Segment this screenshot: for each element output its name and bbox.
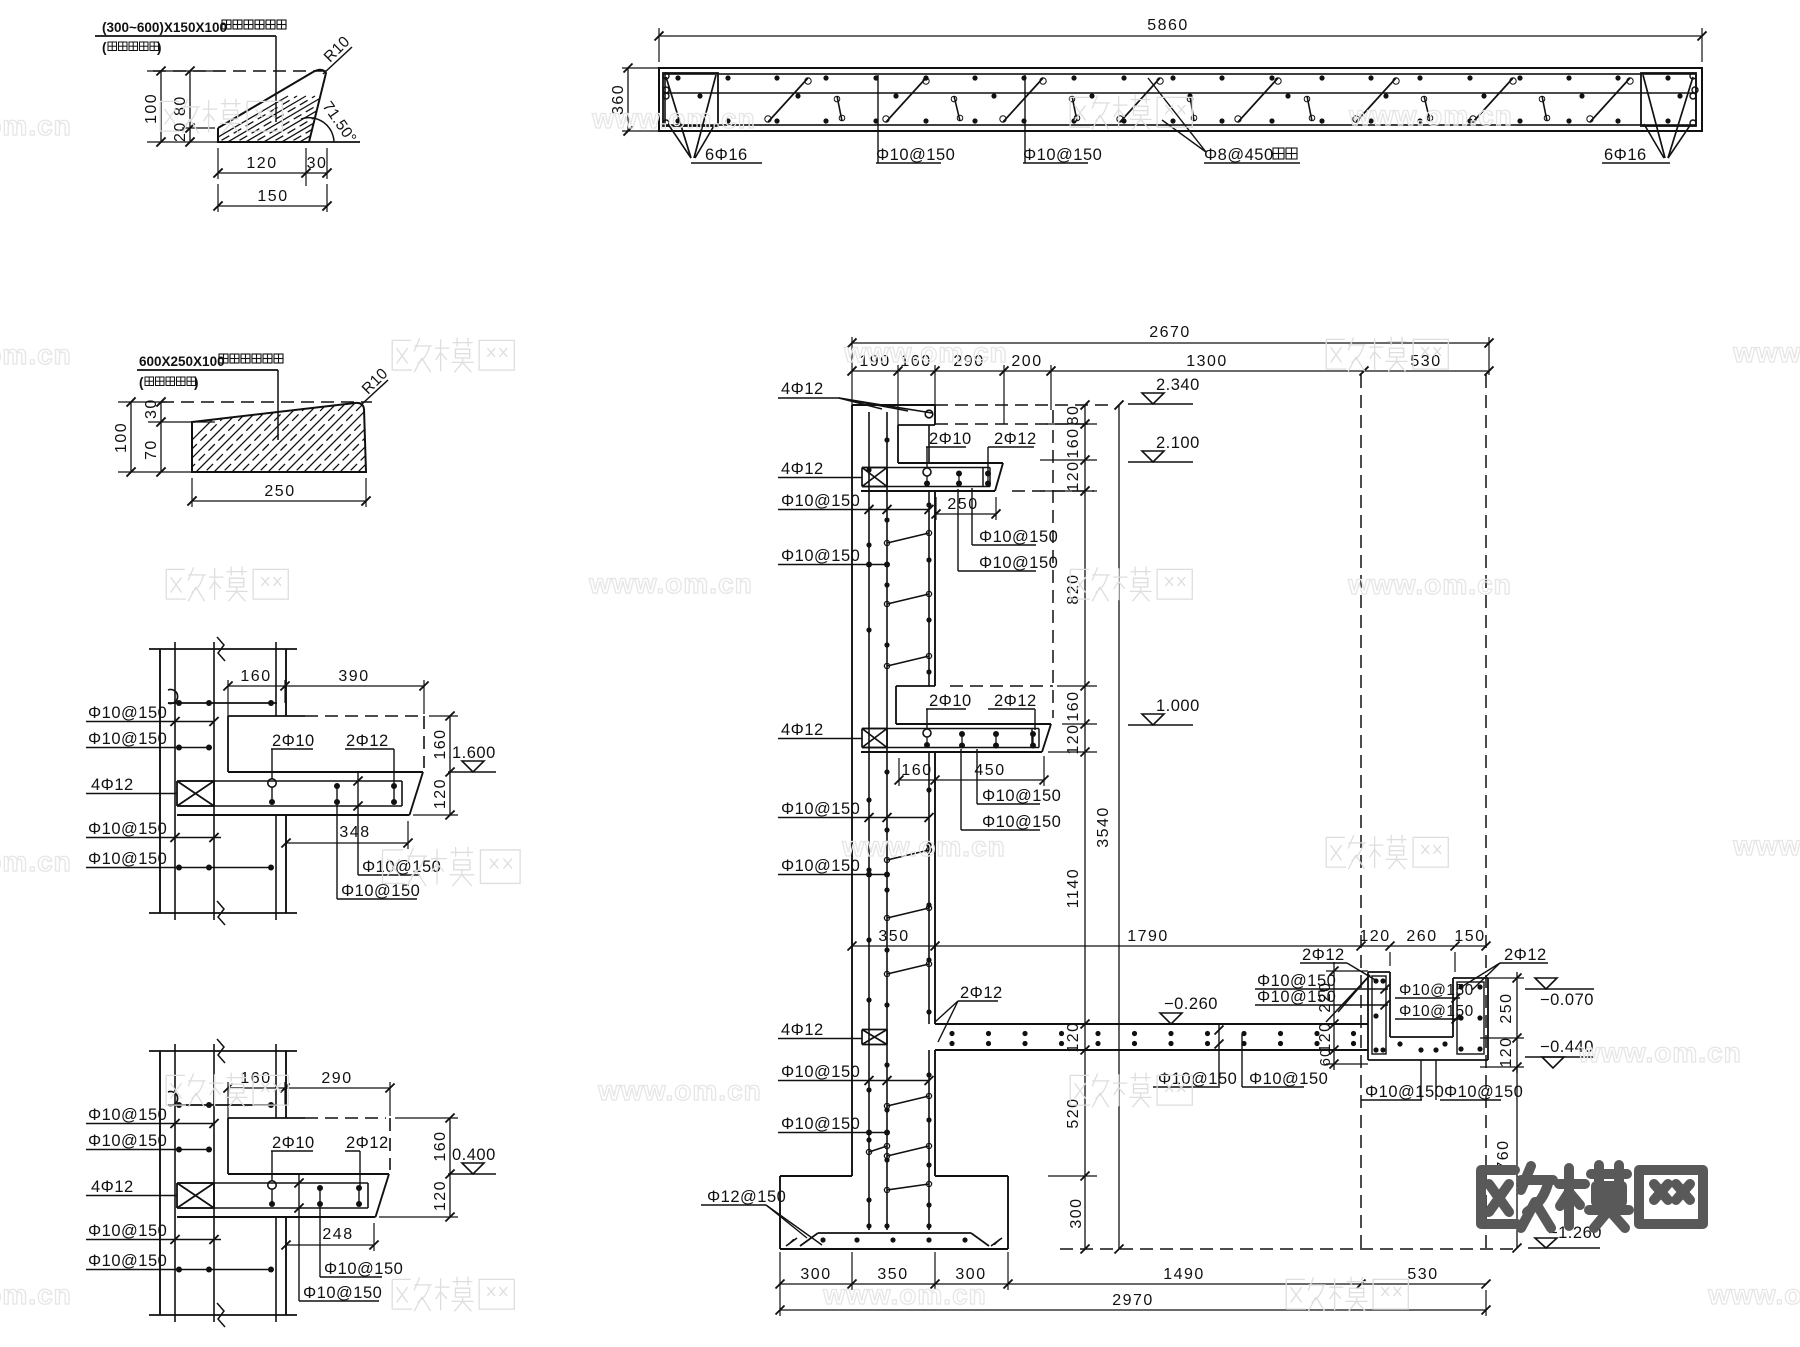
detail B leader xyxy=(277,370,279,440)
F ledge1 label 2phi12 xyxy=(985,430,1037,487)
ledge beam bottom line xyxy=(177,1216,376,1218)
svg-text:2.100: 2.100 xyxy=(1156,434,1200,452)
F footing corner anchor symbols xyxy=(786,1238,1002,1246)
svg-text:3540: 3540 xyxy=(1095,806,1112,848)
F footing bottom rebar with hooks xyxy=(800,1233,989,1246)
F wall width dim 350 at slab level xyxy=(852,928,935,946)
F level 2.100 xyxy=(1128,434,1200,462)
F left label phi10@150 (L1) xyxy=(778,492,934,514)
svg-text:2Φ10: 2Φ10 xyxy=(272,732,315,750)
label 2phi10 xyxy=(271,732,315,779)
ledge recess outline xyxy=(228,1118,390,1174)
wall rebar verticals xyxy=(175,642,214,920)
dim 160 right vertical xyxy=(429,712,458,777)
F ledge1 recess outline xyxy=(898,425,935,463)
wall bottom cap line with break xyxy=(149,1303,297,1327)
F wall ties below slab xyxy=(884,1093,931,1158)
F ledge2 label phi10@150 (1) xyxy=(977,749,1061,805)
svg-text:Φ10@150: Φ10@150 xyxy=(1365,1083,1444,1101)
svg-text:5860: 5860 xyxy=(1147,17,1189,34)
svg-text:www.om.cn: www.om.cn xyxy=(1348,100,1513,131)
F below-trough labels phi10@150 xyxy=(1361,1060,1444,1101)
svg-text:Φ10@150: Φ10@150 xyxy=(88,704,167,722)
svg-text:Φ10@150: Φ10@150 xyxy=(1158,1070,1237,1088)
svg-text:30: 30 xyxy=(143,398,160,419)
svg-text:Φ10@150: Φ10@150 xyxy=(781,1115,860,1133)
svg-text:530: 530 xyxy=(1410,353,1441,370)
svg-text:Φ10@150: Φ10@150 xyxy=(362,858,441,876)
svg-text:www.om.cn: www.om.cn xyxy=(1347,569,1512,600)
F trough label 2phi12 right xyxy=(1463,946,1548,990)
level marker 0.400 xyxy=(448,1146,496,1174)
F trough inner labels phi10@150 xyxy=(1395,982,1474,1003)
F ledge2 recess outline xyxy=(896,686,1053,724)
detail B title underline xyxy=(137,369,278,371)
svg-text:2Φ12: 2Φ12 xyxy=(1504,946,1547,964)
svg-text:4Φ12: 4Φ12 xyxy=(91,776,134,794)
detail A title underline xyxy=(95,35,276,37)
svg-text:www.om.cn: www.om.cn xyxy=(843,337,1008,368)
label phi10@150 lower-right first xyxy=(320,1204,403,1278)
wall outer left face xyxy=(159,1051,161,1315)
F level 2.340 xyxy=(1128,376,1200,404)
beam left end cage 6phi16 xyxy=(663,73,718,158)
F top dim 2670 xyxy=(848,324,1494,405)
label phi10@150 lower-right first xyxy=(358,858,441,876)
svg-text:80: 80 xyxy=(1065,405,1082,426)
detail A stone cross-section outline with hatch xyxy=(218,70,326,142)
F trough bent bars at left wall top xyxy=(1326,975,1370,1022)
svg-text:www.om.cn: www.om.cn xyxy=(1732,337,1800,368)
4phi12 X-brace xyxy=(177,1182,214,1184)
beam top rebar dots xyxy=(675,75,1670,80)
dim 248 below beam xyxy=(281,1223,378,1251)
svg-text:150: 150 xyxy=(1454,928,1485,945)
svg-text:www.om.cn: www.om.cn xyxy=(0,1279,72,1310)
svg-text:www.om.cn: www.om.cn xyxy=(0,110,72,141)
svg-text:4Φ12: 4Φ12 xyxy=(781,1021,824,1039)
svg-text:2Φ12: 2Φ12 xyxy=(994,692,1037,710)
F label phi12@150 footing xyxy=(701,1188,822,1245)
F ledge1 label phi10@150 (2) xyxy=(958,489,1058,572)
beam dim 5860 xyxy=(655,17,1707,62)
wall top cap line with break xyxy=(149,637,297,661)
F level -1.260 xyxy=(1528,1224,1602,1248)
svg-text:160: 160 xyxy=(432,1130,449,1161)
detail A dim 120/30 xyxy=(213,148,331,186)
left label phi10@150 (4) xyxy=(86,850,274,871)
F left label phi10@150 (L3) xyxy=(778,800,934,822)
svg-text:(: ( xyxy=(139,375,144,390)
F ledge1 label phi10@150 (1) xyxy=(972,488,1058,546)
detail B title 600X250X100 stone xyxy=(139,354,283,369)
F ledge1 dim 250 xyxy=(932,496,1001,520)
dim 290 top xyxy=(285,1070,395,1116)
svg-text:450: 450 xyxy=(974,762,1005,779)
svg-text:160: 160 xyxy=(240,668,271,685)
svg-text:4Φ12: 4Φ12 xyxy=(781,380,824,398)
svg-text:Φ10@150: Φ10@150 xyxy=(781,1063,860,1081)
F wall top line xyxy=(852,404,935,406)
label 2phi12 xyxy=(345,732,394,785)
svg-text:Φ10@150: Φ10@150 xyxy=(781,492,860,510)
stirrup leader tick vertical xyxy=(294,1174,303,1301)
F slab rebar dots rows xyxy=(949,1031,1356,1046)
F wall rebar vertical a xyxy=(868,412,870,1230)
F ledge1 right slant xyxy=(995,463,1003,491)
F slab label 2phi12 xyxy=(935,984,1003,1042)
label phi10@150 lower-right second xyxy=(337,802,420,900)
svg-text:Φ10@150: Φ10@150 xyxy=(1249,1070,1328,1088)
wall right inner bar (interrupted by ledge) xyxy=(275,642,277,920)
F dim col right 250/120 xyxy=(1480,972,1524,1073)
detail B subtitle xyxy=(139,375,199,390)
dim 120 right vertical xyxy=(413,772,458,820)
svg-text:80: 80 xyxy=(172,95,189,116)
F left label phi10@150 (L4) xyxy=(778,857,890,878)
F bottom dim row 300/350/300/1490/530 xyxy=(776,1252,1491,1290)
beam inner rebar cage xyxy=(665,74,1696,125)
beam label 6phi16 left xyxy=(691,146,762,164)
F level -0.440 xyxy=(1525,1038,1594,1068)
detail A R10 leader xyxy=(323,47,352,74)
detail B dim 30/70 xyxy=(143,397,215,476)
svg-text:2Φ12: 2Φ12 xyxy=(346,732,389,750)
F ledge2 4phi12 X-brace xyxy=(862,728,887,730)
ledge beam top line xyxy=(228,1173,389,1175)
detail B stone outline xyxy=(192,403,366,472)
svg-text:160: 160 xyxy=(1065,427,1082,458)
F trough right wall stirrup + dots xyxy=(1457,982,1484,1054)
svg-text:Φ10@150: Φ10@150 xyxy=(88,820,167,838)
detail A angle arc 71.50 deg xyxy=(301,118,334,142)
detail B dashed top line xyxy=(161,401,372,403)
svg-text:1.600: 1.600 xyxy=(452,744,496,762)
svg-text:2970: 2970 xyxy=(1112,1292,1154,1309)
beam bottom rebar dots xyxy=(675,118,1670,123)
F trough left wall stirrup + dots xyxy=(1372,976,1386,1054)
svg-text:www.om.cn: www.om.cn xyxy=(588,568,753,599)
F ledge1 mid rebar dots xyxy=(956,471,962,487)
beam stirrup lines xyxy=(179,781,402,806)
F dim 1790 slab xyxy=(848,928,1366,951)
svg-text:4Φ12: 4Φ12 xyxy=(781,460,824,478)
svg-text:2Φ10: 2Φ10 xyxy=(929,430,972,448)
ledge beam top line xyxy=(228,771,423,773)
svg-text:2.340: 2.340 xyxy=(1156,376,1200,394)
left label phi10@150 (4) xyxy=(86,1252,274,1273)
svg-text:350: 350 xyxy=(878,928,909,945)
svg-text:Φ10@150: Φ10@150 xyxy=(88,1222,167,1240)
svg-text:1490: 1490 xyxy=(1163,1266,1205,1283)
F slab top line xyxy=(935,1023,1368,1025)
svg-text:250: 250 xyxy=(1498,992,1515,1023)
svg-text:Φ8@450: Φ8@450 xyxy=(1204,146,1274,164)
svg-text:530: 530 xyxy=(1407,1266,1438,1283)
svg-text:1300: 1300 xyxy=(1186,353,1228,370)
stirrup leader tick vertical xyxy=(353,772,362,875)
left label 4phi12 xyxy=(86,776,177,794)
F ledge2 rebar dots xyxy=(959,731,1036,749)
svg-text:2Φ12: 2Φ12 xyxy=(346,1134,389,1152)
detail B dim 100 xyxy=(113,397,192,476)
svg-text:Φ10@150: Φ10@150 xyxy=(979,554,1058,572)
F below-slab label phi10@150 (1) xyxy=(1153,1070,1237,1088)
svg-text:www.om.cn: www.om.cn xyxy=(822,1279,987,1310)
wall right face (interrupted by ledge) xyxy=(285,1051,287,1315)
F dashed grid vertical at 1486 xyxy=(1485,375,1487,1249)
F wall rebar vertical c (interrupted) xyxy=(928,425,930,1230)
F below-slab label phi10@150 (2) xyxy=(1242,1034,1328,1088)
F dashed hidden line 80 below top xyxy=(935,423,1094,425)
4phi12 X-brace xyxy=(177,780,214,782)
F dim 3540 overall xyxy=(1095,400,1124,1253)
beam middle rebar dots xyxy=(697,93,1682,98)
beam stirrup lines xyxy=(179,1183,368,1208)
svg-text:220: 220 xyxy=(1317,981,1334,1012)
svg-text:1790: 1790 xyxy=(1127,928,1169,945)
left label phi10@150 (2) xyxy=(86,1132,212,1153)
ledge recess outline xyxy=(228,716,424,772)
svg-text:Φ10@150: Φ10@150 xyxy=(88,850,167,868)
detail A baseline xyxy=(218,141,360,143)
svg-text:120: 120 xyxy=(1065,1021,1082,1052)
left label phi10@150 (3) xyxy=(86,820,221,842)
dim 390 top xyxy=(285,668,429,714)
beam rebar dots xyxy=(268,1181,362,1207)
dim 120 right vertical xyxy=(379,1174,458,1222)
svg-text:Φ10@150: Φ10@150 xyxy=(324,1260,403,1278)
svg-text:Φ10@150: Φ10@150 xyxy=(781,800,860,818)
F ledge1 4phi12 X-brace xyxy=(862,467,887,469)
wall right face (interrupted by ledge) xyxy=(285,649,287,913)
svg-text:www.om.cn: www.om.cn xyxy=(0,846,72,877)
F ledge1 label 2phi10 xyxy=(923,430,972,487)
F footing bar dots xyxy=(866,1197,931,1228)
svg-text:www.om.cn: www.om.cn xyxy=(597,1075,762,1106)
svg-text:250: 250 xyxy=(264,483,295,500)
F dim 120/260/150 trough xyxy=(1359,928,1490,972)
svg-text:4Φ12: 4Φ12 xyxy=(781,721,824,739)
left label phi10@150 (2) xyxy=(86,730,212,751)
F wall bar dots below slab xyxy=(866,1062,931,1167)
F dim col inner 80/160/120/820/160/120/1140/120/520/300 xyxy=(1040,400,1097,1253)
F trough-left labels phi10@150 stack xyxy=(1255,972,1390,994)
svg-text:Φ10@150: Φ10@150 xyxy=(88,730,167,748)
beam label phi10@150 second xyxy=(1023,75,1102,164)
svg-text:Φ10@150: Φ10@150 xyxy=(876,146,955,164)
svg-text:290: 290 xyxy=(321,1070,352,1087)
F ledge2 beam top xyxy=(896,723,1051,725)
svg-text:Φ10@150: Φ10@150 xyxy=(1023,146,1102,164)
beam outer outline xyxy=(659,68,1702,131)
svg-text:120: 120 xyxy=(1359,928,1390,945)
svg-text:248: 248 xyxy=(322,1226,353,1243)
F ledge1 beam bottom xyxy=(861,490,995,492)
F dashed hidden vertical at 1053 xyxy=(1052,410,1054,718)
svg-text:120: 120 xyxy=(432,778,449,809)
F ledge2 label 4phi12 xyxy=(778,721,862,739)
svg-text:200: 200 xyxy=(1011,353,1042,370)
F left label phi10@150 (L2) xyxy=(778,547,890,568)
F wall ties between ledge1 and ledge2 xyxy=(884,530,931,668)
hooked horizontal bar with dots xyxy=(168,1092,277,1109)
beam tie diagonals phi8@450 xyxy=(765,78,1633,122)
svg-text:6Φ16: 6Φ16 xyxy=(1604,146,1647,164)
svg-text:www.om.cn: www.om.cn xyxy=(1707,1279,1800,1310)
F ledge2 label 2phi10 xyxy=(923,692,972,748)
label 2phi12 xyxy=(345,1134,389,1187)
F trough inner floor xyxy=(1390,1036,1453,1038)
F dim 760 xyxy=(1495,1067,1522,1253)
svg-text:120: 120 xyxy=(1065,723,1082,754)
F footing ties xyxy=(866,1143,931,1192)
beam middle bar line xyxy=(663,87,1698,93)
F bottom dim 2970 xyxy=(776,1290,1491,1316)
svg-text:Φ10@150: Φ10@150 xyxy=(982,787,1061,805)
ledge beam right slant edge xyxy=(376,1174,390,1217)
F level 1.000 xyxy=(1128,697,1200,725)
F slab label 4phi12 xyxy=(778,1021,862,1039)
F level -0.070 xyxy=(1525,978,1594,1009)
F ledge2 label phi10@150 (2) xyxy=(961,749,1061,831)
svg-text:820: 820 xyxy=(1065,573,1082,604)
svg-text:2Φ10: 2Φ10 xyxy=(929,692,972,710)
dim 160 top xyxy=(223,668,289,716)
detail A subtitle (cut to size) xyxy=(102,40,162,55)
svg-text:348: 348 xyxy=(339,824,370,841)
wall outer left face xyxy=(159,649,161,913)
svg-text:60: 60 xyxy=(1317,1048,1334,1067)
svg-text:Φ10@150: Φ10@150 xyxy=(979,528,1058,546)
svg-text:): ) xyxy=(194,375,199,390)
svg-text:160: 160 xyxy=(1065,690,1082,721)
beam right end cage 6phi16 xyxy=(1641,73,1696,158)
svg-text:160: 160 xyxy=(240,1070,271,1087)
F dashed grid vertical at 1361 xyxy=(1360,375,1362,1249)
svg-text:300: 300 xyxy=(1068,1197,1085,1228)
svg-text:Φ10@150: Φ10@150 xyxy=(88,1132,167,1150)
F ledge1 label 4phi12 xyxy=(778,460,862,478)
dim 160 right vertical xyxy=(395,1114,458,1179)
beam label phi10@150 first xyxy=(876,75,955,164)
svg-text:2Φ12: 2Φ12 xyxy=(1302,946,1345,964)
detail A dim 100 vertical xyxy=(143,67,225,147)
F trough label 2phi12 left xyxy=(1300,946,1377,981)
F trough right wall xyxy=(1453,978,1488,1060)
F dim col 220/120/60 xyxy=(1317,962,1368,1070)
F ledge1 beam top xyxy=(898,462,1003,464)
svg-text:Φ10@150: Φ10@150 xyxy=(1399,1003,1474,1020)
F slab bottom line xyxy=(935,1049,1368,1051)
level marker 1.600 xyxy=(448,744,496,772)
svg-text:−0.070: −0.070 xyxy=(1540,991,1594,1009)
svg-text:150: 150 xyxy=(257,188,288,205)
OM.CN logo bottom right (dark) xyxy=(1481,1165,1703,1228)
hooked horizontal bar with dots xyxy=(168,690,277,706)
F footing outline xyxy=(780,1176,1008,1249)
wall top cap line with break xyxy=(149,1039,297,1063)
F label 4phi12 top bent bars xyxy=(778,380,933,418)
beam label phi8@450 ties xyxy=(1148,78,1300,164)
svg-text:4Φ12: 4Φ12 xyxy=(91,1178,134,1196)
svg-text:100: 100 xyxy=(113,422,130,453)
F wall top dashed extension xyxy=(935,404,1110,406)
wall rebar verticals xyxy=(175,1044,214,1322)
svg-text:(300~600)X150X100: (300~600)X150X100 xyxy=(102,20,227,35)
ledge beam right slant edge xyxy=(410,772,424,815)
F trough bottom xyxy=(1368,1059,1488,1061)
svg-text:120: 120 xyxy=(432,1180,449,1211)
svg-text:1.000: 1.000 xyxy=(1156,697,1200,715)
svg-text:): ) xyxy=(157,40,162,55)
svg-text:−0.260: −0.260 xyxy=(1164,995,1218,1013)
F ledge1 soffit dashed extension xyxy=(1012,490,1094,492)
svg-text:Φ10@150: Φ10@150 xyxy=(1444,1083,1523,1101)
F ledge1 stirrup lines xyxy=(862,468,990,487)
wall right inner bar (interrupted by ledge) xyxy=(275,1044,277,1322)
F wall rebar vertical b xyxy=(886,412,888,1230)
detail A dashed top line xyxy=(153,70,330,72)
svg-text:160: 160 xyxy=(432,728,449,759)
F top dim row 190/160/290/200/1300/530 xyxy=(848,353,1494,425)
svg-text:www.om.cn: www.om.cn xyxy=(1732,830,1800,861)
F trough left wall xyxy=(1368,972,1390,1060)
F slab 4phi12 X-brace xyxy=(862,1029,887,1031)
dim 348 below beam xyxy=(281,821,412,849)
F wall right face (interrupted by ledges and slab) xyxy=(934,405,936,1176)
F wall ties below ledge2 xyxy=(884,847,931,976)
svg-text:390: 390 xyxy=(338,668,369,685)
svg-text:Φ10@150: Φ10@150 xyxy=(1399,982,1474,999)
svg-text:(: ( xyxy=(102,40,107,55)
svg-text:0.400: 0.400 xyxy=(452,1146,496,1164)
svg-text:160: 160 xyxy=(901,762,932,779)
F ledge2 beam bottom xyxy=(861,751,1042,753)
svg-text:100: 100 xyxy=(143,93,160,124)
detail A dim 150 xyxy=(213,184,331,212)
svg-text:520: 520 xyxy=(1065,1097,1082,1128)
left label phi10@150 (3) xyxy=(86,1222,221,1244)
svg-text:260: 260 xyxy=(1406,928,1437,945)
svg-text:120: 120 xyxy=(1498,1036,1515,1067)
svg-text:www.om.cn: www.om.cn xyxy=(0,339,72,370)
svg-text:1140: 1140 xyxy=(1065,868,1082,908)
detail B dim 250 xyxy=(187,478,370,507)
svg-text:600X250X100: 600X250X100 xyxy=(139,354,225,369)
svg-text:250: 250 xyxy=(947,496,978,513)
svg-text:30: 30 xyxy=(307,155,328,172)
F ledge2 right slant xyxy=(1042,724,1051,752)
svg-text:2Φ10: 2Φ10 xyxy=(272,1134,315,1152)
svg-text:Φ10@150: Φ10@150 xyxy=(88,1106,167,1124)
svg-text:6Φ16: 6Φ16 xyxy=(705,146,748,164)
svg-text:www.om.cn: www.om.cn xyxy=(841,831,1006,862)
svg-text:Φ10@150: Φ10@150 xyxy=(88,1252,167,1270)
svg-text:2670: 2670 xyxy=(1149,324,1191,341)
detail A leader line from title to shape xyxy=(275,36,277,122)
svg-text:Φ10@150: Φ10@150 xyxy=(982,813,1061,831)
svg-text:2Φ12: 2Φ12 xyxy=(960,984,1003,1002)
F trough floor dots xyxy=(1397,1041,1447,1052)
F bottom dashed line at -1.260 xyxy=(1060,1248,1517,1250)
svg-text:2Φ12: 2Φ12 xyxy=(994,430,1037,448)
svg-text:Φ12@150: Φ12@150 xyxy=(707,1188,786,1206)
F left label phi10@150 (L6) xyxy=(778,1115,890,1136)
F wall bar dots below ledge2 xyxy=(866,769,931,1014)
svg-text:120: 120 xyxy=(1065,460,1082,491)
label 2phi10 xyxy=(271,1134,315,1181)
